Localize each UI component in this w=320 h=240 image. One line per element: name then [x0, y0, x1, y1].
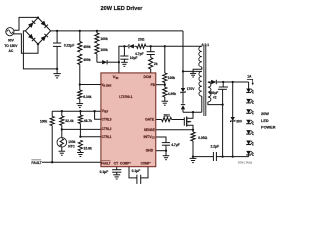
diode D6 bias to VIN (points left) — [129, 44, 134, 48]
junction drain rail / MOSFET — [192, 111, 194, 113]
svg-text:TO 150V: TO 150V — [4, 44, 18, 48]
wire FB node to IC FB pin — [164, 83, 166, 88]
junction bias rail / FB divider — [164, 45, 166, 47]
wire gnd rail primary side — [193, 156, 213, 158]
junction VIN node top — [123, 45, 125, 47]
resistor R6 20R — [137, 44, 146, 48]
svg-text:NTC: NTC — [68, 144, 75, 148]
svg-text:90V: 90V — [8, 39, 15, 43]
wire VREF rail — [52, 110, 101, 112]
wire GND pin — [156, 150, 166, 152]
junction VIN node / startup diode — [118, 61, 120, 63]
junction bridge top vertex — [37, 16, 39, 18]
svg-text:100k: 100k — [100, 37, 108, 41]
LED string D11-D17 (7 LEDs) — [248, 82, 250, 89]
wire primary top tap — [183, 70, 202, 72]
svg-text:×2: ×2 — [213, 96, 217, 100]
resistor R8 100k FB — [163, 73, 167, 83]
ground below NTC — [61, 147, 63, 151]
capacitor C2 10uF VIN bypass — [123, 46, 125, 56]
resistor R2 499k — [78, 54, 82, 65]
svg-text:30V: 30V — [236, 119, 243, 123]
junction bias rail / DCM branch — [150, 45, 152, 47]
svg-text:CT: CT — [114, 161, 119, 165]
ground below CT cap — [113, 174, 120, 176]
svg-text:20Ω: 20Ω — [138, 38, 145, 42]
junction FAULT / pullup — [51, 161, 53, 163]
wire gate — [172, 119, 185, 121]
resistor R11 0.05R sense — [192, 130, 194, 132]
junction VIN_SENSE node — [79, 83, 81, 85]
svg-text:1A: 1A — [247, 75, 252, 79]
resistor R7 2k DCM — [150, 55, 152, 58]
svg-text:10μF: 10μF — [130, 56, 138, 60]
junction ground rail / C1 bottom — [56, 68, 58, 70]
junction VREF/32.4k — [61, 110, 63, 112]
svg-text:FB: FB — [151, 83, 156, 87]
svg-text:4.7μF: 4.7μF — [171, 143, 180, 147]
wire AC line lower to bridge bottom vertex — [14, 34, 38, 53]
resistor R10 20R gate — [162, 117, 172, 121]
wire output negative rail — [216, 156, 248, 158]
wire 499k chain to VIN_SENSE node — [79, 65, 81, 91]
wire CTRL2 — [62, 128, 101, 130]
resistor R1 499k — [79, 31, 81, 42]
wire VIN vertical to IC pin — [119, 46, 125, 73]
ground bias winding — [190, 72, 196, 74]
bridge diode D3 (left-bottom edge) — [28, 34, 34, 40]
junction bridge bottom vertex — [37, 43, 39, 45]
bridge diode D4 (bottom-right edge) — [41, 36, 47, 42]
wire CTRL1 — [80, 136, 101, 138]
transformer primary winding — [199, 71, 202, 96]
wire D6 to 20R — [134, 45, 136, 47]
junction sense resistor / gnd rail — [192, 155, 194, 157]
junction VREF/CTRL3 — [93, 110, 95, 112]
ground below INTVCC cap — [165, 151, 167, 156]
svg-text:SENSE: SENSE — [144, 128, 155, 132]
svg-text:GND: GND — [146, 149, 154, 153]
zener D10 30V — [232, 82, 234, 117]
wire secondary top to output diode — [208, 81, 211, 83]
resistor R5 100k — [95, 44, 99, 54]
wire 100k chain to startup diode — [96, 54, 98, 62]
resistor R13 32.4k — [61, 111, 63, 116]
wire bias winding bottom to ground — [193, 67, 202, 74]
svg-text:4.99k: 4.99k — [168, 92, 176, 96]
wire startup diode to VIN node — [108, 61, 119, 63]
wire CTRL3 jog — [95, 111, 101, 119]
diode D5 startup feed — [102, 60, 107, 64]
zener D7 170V — [181, 88, 185, 92]
wire VIN_SENSE to IC — [80, 84, 101, 86]
junction CTRL2 node — [61, 128, 63, 130]
wire AC line upper to bridge top vertex — [14, 17, 38, 30]
svg-text:CTRL2: CTRL2 — [102, 127, 112, 131]
wire DC+ rail from bridge right vertex — [51, 30, 183, 32]
transformer secondary winding — [208, 82, 211, 102]
ground below 10uF — [121, 61, 128, 63]
svg-text:2k: 2k — [154, 62, 158, 66]
capacitor C6 2.2uF isolation — [212, 152, 214, 161]
svg-text:LED: LED — [261, 119, 269, 123]
transformer bias winding — [199, 46, 202, 67]
wire between clamp diodes — [182, 92, 184, 103]
svg-text:100k: 100k — [168, 76, 176, 80]
resistor R12 100k fault pullup — [51, 111, 53, 116]
capacitor C7 0.1uF CT — [116, 167, 118, 170]
junction secondary return / cap leg — [221, 103, 223, 105]
svg-text:48.7k: 48.7k — [84, 119, 92, 123]
capacitor C8 0.1uF COMP — [129, 167, 137, 178]
capacitor C3 4.7pF DCM — [150, 46, 152, 51]
junction CTRL1 node — [79, 136, 81, 138]
wire bridge left vertex to ground rail — [23, 31, 57, 69]
junction FB node — [164, 84, 166, 86]
junction VREF/48.7k — [79, 110, 81, 112]
resistor R14 48.7k — [79, 111, 81, 115]
svg-text:20W: 20W — [261, 112, 269, 116]
capacitor C1 0.22uF — [56, 31, 58, 43]
ground main (below input cap) — [56, 69, 58, 74]
svg-text:CTRL1: CTRL1 — [102, 135, 112, 139]
junction output rail / D10 zener — [232, 81, 234, 83]
diode D8 clamp blocking (points up) — [181, 105, 185, 109]
diode D9 output rectifier — [211, 80, 216, 84]
svg-text:2.2μF: 2.2μF — [210, 145, 219, 149]
svg-text:20Ω: 20Ω — [163, 113, 170, 117]
ground below 6.34k — [79, 99, 81, 104]
svg-text:LT3799-1: LT3799-1 — [119, 95, 132, 99]
wire GATE pin to gate resistor — [156, 119, 162, 121]
svg-text:15.8k: 15.8k — [84, 147, 92, 151]
junction primary top tap — [182, 70, 184, 72]
svg-text:0.1μF: 0.1μF — [132, 169, 141, 173]
svg-text:AC: AC — [9, 49, 14, 53]
junction INTVCC cap / GND — [165, 150, 167, 152]
wire bias rail — [146, 45, 202, 47]
junction output rail / C5 — [222, 81, 224, 83]
wire INTVCC — [156, 137, 166, 143]
junction DC+ rail / C1 — [56, 30, 58, 32]
svg-text:499k: 499k — [83, 58, 91, 62]
svg-text:DCM: DCM — [143, 75, 151, 79]
svg-text:CTRL3: CTRL3 — [102, 117, 112, 121]
op-amp U1 LT3799-1 controller IC — [101, 73, 156, 167]
resistor R9 4.99k FB — [163, 87, 167, 97]
junction source/sense — [192, 129, 194, 131]
wire drain rail — [183, 111, 202, 113]
svg-text:100k: 100k — [40, 119, 48, 123]
bridge rectifier diamond wires — [25, 18, 50, 44]
junction out- rail / C5 — [221, 155, 223, 157]
svg-text:170V: 170V — [187, 87, 196, 91]
svg-text:GATE: GATE — [145, 118, 155, 122]
capacitor C4 4.7uF INTVCC — [162, 142, 170, 144]
ground below 15.8k — [79, 151, 81, 153]
wire bias rail to FB 100k — [164, 46, 166, 73]
resistor R4 100k — [96, 31, 98, 33]
resistor R3 6.34k — [78, 90, 82, 99]
svg-text:FAULT: FAULT — [31, 161, 41, 165]
svg-text:499k: 499k — [83, 45, 91, 49]
svg-text:6.34k: 6.34k — [83, 95, 91, 99]
wire secondary bottom return — [208, 102, 223, 105]
wire clamp to drain rail — [182, 109, 184, 112]
resistor R15 15.8k — [78, 140, 82, 151]
transformer core — [203, 46, 205, 116]
AC source V1 90V-150V AC — [6, 28, 14, 36]
svg-text:20W LED Driver: 20W LED Driver — [101, 6, 144, 12]
svg-text:0.1μF: 0.1μF — [100, 170, 109, 174]
capacitor C5 560uF x2 output — [222, 82, 224, 87]
transistor M1 N-MOSFET — [183, 117, 185, 125]
svg-text:100k: 100k — [100, 48, 108, 52]
ground below 4.99k — [164, 97, 166, 101]
svg-text:FAULT: FAULT — [101, 161, 111, 165]
junction DC+ rail / R 499k chain — [79, 30, 81, 32]
bridge diode D1 (left-top edge) — [28, 22, 34, 28]
wire FAULT — [42, 161, 101, 163]
wire DC+ rail down to clamp — [182, 31, 184, 88]
wire primary bottom to drain rail — [201, 96, 203, 112]
svg-text:3799-1 TA01b: 3799-1 TA01b — [238, 162, 253, 165]
svg-text:32.4k: 32.4k — [65, 119, 73, 123]
svg-text:0.05Ω: 0.05Ω — [198, 136, 207, 140]
junction out- rail / zener — [232, 155, 234, 157]
svg-text:0.22μF: 0.22μF — [64, 43, 74, 47]
bridge diode D2 (top-right edge) — [41, 21, 47, 27]
thermistor RT 100k NTC — [61, 129, 63, 137]
svg-text:560μF: 560μF — [209, 91, 218, 95]
wire output positive rail — [217, 81, 249, 83]
svg-text:4.7pF: 4.7pF — [135, 52, 144, 56]
svg-text:POWER: POWER — [261, 126, 276, 130]
ground below sense resistor — [192, 157, 194, 159]
wire SENSE — [156, 129, 193, 131]
junction DC+ rail / R 100k chain — [96, 30, 98, 32]
wire VIN node to D6 — [124, 45, 128, 47]
